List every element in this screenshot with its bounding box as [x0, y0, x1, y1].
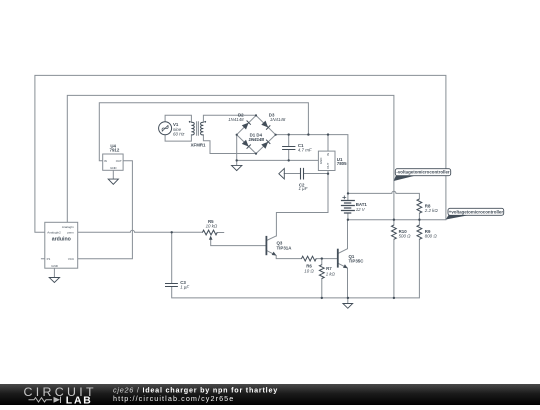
svg-text:OUT: OUT	[116, 159, 122, 163]
svg-text:500 Ω: 500 Ω	[399, 234, 412, 239]
svg-text:2.2 kΩ: 2.2 kΩ	[424, 208, 439, 213]
svg-text:+voltagetomicrocontroller: +voltagetomicrocontroller	[449, 209, 504, 214]
svg-text:arduino: arduino	[52, 236, 71, 242]
svg-text:1 kΩ: 1 kΩ	[326, 272, 336, 277]
svg-text:LAB: LAB	[66, 396, 93, 405]
svg-text:60 Hz: 60 Hz	[173, 132, 185, 137]
svg-text:http://circuitlab.com/cy2r65e: http://circuitlab.com/cy2r65e	[113, 394, 234, 403]
svg-text:1 µF: 1 µF	[299, 186, 308, 191]
svg-text:IN: IN	[326, 153, 330, 156]
svg-text:1 µF: 1 µF	[180, 284, 189, 289]
svg-text:1N4148: 1N4148	[270, 117, 286, 122]
svg-text:AnalogIn2: AnalogIn2	[47, 231, 61, 235]
svg-text:R7: R7	[326, 266, 332, 271]
svg-text:10 Ω: 10 Ω	[304, 269, 314, 274]
svg-text:1N4148: 1N4148	[228, 117, 244, 122]
svg-text:XFMR1: XFMR1	[191, 142, 206, 147]
svg-text:IN: IN	[104, 159, 107, 163]
svg-text:pwm: pwm	[67, 231, 74, 235]
svg-text:7805: 7805	[337, 161, 347, 166]
svg-text:GND: GND	[319, 158, 323, 164]
svg-text:P1: P1	[47, 257, 51, 261]
svg-text:TIP31A: TIP31A	[277, 246, 293, 251]
svg-text:-voltagetomicrocontroller: -voltagetomicrocontroller	[396, 170, 449, 175]
svg-text:800 Ω: 800 Ω	[425, 234, 438, 239]
svg-text:VCC: VCC	[68, 257, 75, 261]
svg-text:TIP35C: TIP35C	[349, 259, 365, 264]
svg-text:GND: GND	[110, 166, 116, 170]
svg-text:7912: 7912	[110, 148, 120, 153]
svg-text:OUT: OUT	[326, 162, 330, 168]
svg-text:AnalogIn: AnalogIn	[62, 225, 74, 229]
svg-text:10 kΩ: 10 kΩ	[206, 224, 218, 229]
svg-text:1N4148: 1N4148	[249, 137, 265, 142]
svg-text:4.7 mF: 4.7 mF	[298, 148, 312, 153]
svg-text:12 V: 12 V	[356, 207, 366, 212]
svg-text:GND: GND	[51, 264, 59, 268]
